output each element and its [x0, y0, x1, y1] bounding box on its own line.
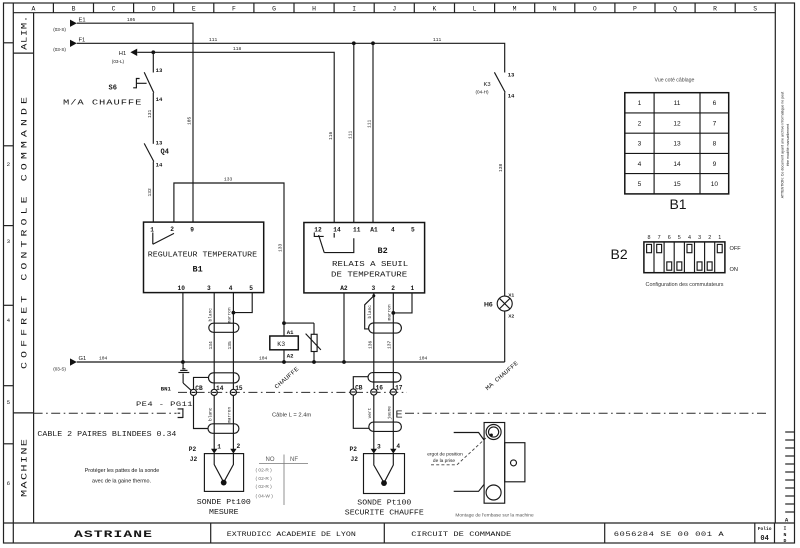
svg-text:14: 14 — [508, 93, 515, 100]
twisted pair symbol (cable to probe 1) — [208, 424, 239, 434]
svg-text:8: 8 — [713, 141, 717, 148]
svg-text:135: 135 — [227, 341, 233, 350]
svg-text:NO: NO — [266, 457, 275, 463]
svg-text:E1: E1 — [79, 17, 86, 23]
svg-text:3: 3 — [372, 285, 376, 292]
svg-text:marron: marron — [227, 406, 233, 423]
socket 15 — [230, 385, 243, 396]
svg-text:CHAUFFE: CHAUFFE — [273, 365, 301, 390]
svg-text:CB: CB — [195, 385, 203, 392]
regulator B1 — [144, 222, 264, 293]
svg-text:13: 13 — [508, 71, 515, 78]
svg-text:5: 5 — [411, 227, 415, 234]
svg-text:3: 3 — [698, 235, 701, 241]
svg-text:H: H — [312, 6, 316, 13]
svg-text:4: 4 — [391, 227, 395, 234]
svg-text:6056284 SE 00 001 A: 6056284 SE 00 001 A — [614, 531, 724, 539]
wire B1 pin 5 bridge — [232, 293, 253, 315]
svg-text:( 02-R ): ( 02-R ) — [256, 484, 273, 490]
svg-text:PE4 - PG11: PE4 - PG11 — [136, 402, 193, 409]
svg-text:( 02-R ): ( 02-R ) — [256, 468, 273, 474]
svg-text:A: A — [31, 6, 35, 13]
svg-text:7: 7 — [713, 120, 717, 127]
svg-text:134: 134 — [208, 341, 214, 350]
svg-text:ASTRIANE: ASTRIANE — [74, 528, 152, 540]
svg-text:J: J — [392, 6, 396, 13]
wire 118/116 (H1 to B2 pin 14) — [137, 46, 334, 223]
svg-text:B: B — [72, 6, 76, 13]
wire B1 pin 10 to 104 — [182, 293, 184, 362]
svg-text:13: 13 — [156, 67, 163, 74]
svg-text:jaune: jaune — [387, 406, 393, 420]
svg-text:blanc: blanc — [207, 407, 213, 421]
svg-text:132: 132 — [147, 188, 153, 197]
svg-text:11: 11 — [353, 227, 361, 234]
shield link CB to pair (B2 side) — [353, 377, 368, 389]
svg-text:4: 4 — [638, 161, 642, 168]
svg-text:Configuration des commutateurs: Configuration des commutateurs — [646, 282, 724, 288]
svg-text:M/A CHAUFFE: M/A CHAUFFE — [63, 99, 141, 107]
svg-text:1: 1 — [217, 444, 221, 451]
svg-text:R: R — [713, 6, 717, 13]
svg-text:1: 1 — [150, 227, 154, 234]
svg-text:3: 3 — [207, 285, 211, 292]
svg-text:04: 04 — [760, 535, 768, 543]
svg-text:6: 6 — [713, 100, 717, 107]
svg-text:C: C — [112, 6, 116, 13]
svg-text:blanc: blanc — [367, 305, 373, 319]
source arrow G1 — [53, 356, 86, 371]
svg-text:E: E — [192, 6, 196, 13]
svg-text:M: M — [513, 6, 517, 13]
svg-text:H6: H6 — [484, 302, 493, 309]
svg-text:116: 116 — [328, 131, 334, 140]
svg-text:8: 8 — [648, 235, 651, 241]
junction H1/S6 — [151, 50, 155, 54]
svg-text:1: 1 — [638, 100, 642, 107]
connector pin arrow 1 — [211, 444, 221, 454]
svg-text:4: 4 — [396, 443, 400, 450]
svg-text:SONDE Pt100: SONDE Pt100 — [357, 499, 411, 507]
svg-text:DE TEMPERATURE: DE TEMPERATURE — [331, 272, 408, 280]
svg-text:K: K — [432, 6, 436, 13]
svg-text:104: 104 — [259, 356, 268, 362]
shield link below CB (B1 side) — [194, 396, 209, 429]
svg-text:N: N — [553, 6, 557, 13]
svg-text:3: 3 — [7, 238, 11, 245]
svg-text:F1: F1 — [79, 37, 86, 43]
svg-text:REGULATEUR TEMPERATURE: REGULATEUR TEMPERATURE — [148, 251, 258, 259]
svg-text:ON: ON — [730, 267, 738, 273]
wire 134 blanc (B1 pin 3 to socket 14) — [207, 293, 214, 390]
breaker contact Q4 — [144, 140, 169, 169]
svg-text:111: 111 — [433, 37, 442, 43]
svg-text:14: 14 — [333, 227, 341, 234]
svg-text:(03-S): (03-S) — [53, 367, 66, 372]
svg-text:Protéger les pattes de la sond: Protéger les pattes de la sonde — [85, 468, 160, 474]
wire 133 (B1 pin 2 to K3 coil) — [174, 177, 284, 336]
svg-text:être modifié manuellement: être modifié manuellement — [786, 124, 790, 166]
svg-text:14: 14 — [156, 96, 163, 103]
connector pin arrow 4 — [390, 443, 400, 454]
svg-text:Q4: Q4 — [161, 149, 169, 157]
socket 16 — [371, 385, 384, 396]
svg-text:111: 111 — [209, 37, 218, 43]
revision index ticks — [785, 432, 794, 512]
svg-text:A2: A2 — [340, 285, 348, 292]
shield link below CB (B2 side) — [353, 395, 369, 428]
svg-text:A1: A1 — [370, 227, 378, 234]
wire 138 (K3 to lamp H6) — [498, 92, 505, 296]
svg-text:X2: X2 — [508, 314, 514, 320]
svg-text:OFF: OFF — [730, 246, 742, 252]
wire B2 pin A2 to 104 — [342, 293, 346, 364]
label P2 J2 (probe 1) — [189, 446, 198, 463]
shield link CB to pair (B1 side) — [194, 377, 209, 389]
svg-text:104: 104 — [99, 356, 108, 362]
wire 136 blanc (B2 pin 3 to socket 16) — [367, 293, 374, 389]
socket CB (B1 side) — [190, 385, 203, 396]
equipotential line E (dash-dot) — [396, 408, 769, 420]
wire 104 (G1 common return) — [77, 356, 505, 362]
svg-text:P: P — [633, 6, 637, 13]
svg-text:de la prise: de la prise — [433, 458, 455, 464]
svg-text:D: D — [783, 538, 786, 544]
probe Pt100 mesure box — [204, 454, 243, 492]
source arrow E1 — [53, 17, 85, 32]
svg-text:J2: J2 — [351, 456, 359, 463]
wire 105 (E1 to B1 pin 9) — [77, 17, 193, 222]
svg-text:4: 4 — [7, 317, 11, 324]
svg-text:O: O — [593, 6, 597, 13]
probe Pt100 securite box — [364, 454, 405, 494]
wire blanc (socket 14 to probe pin 1) — [207, 396, 214, 450]
svg-text:11: 11 — [674, 100, 681, 107]
svg-text:9: 9 — [190, 227, 194, 234]
wire lamp X2 down — [504, 311, 506, 362]
svg-text:2: 2 — [170, 226, 174, 233]
svg-text:CIRCUIT DE COMMANDE: CIRCUIT DE COMMANDE — [411, 531, 511, 539]
svg-text:5: 5 — [678, 235, 681, 241]
svg-text:I: I — [783, 526, 786, 532]
connector boundary BN1 (dash-dot) — [178, 391, 407, 393]
svg-text:J2: J2 — [190, 456, 198, 463]
twisted pair symbol (cable to probe 2) — [369, 422, 402, 431]
svg-text:A1: A1 — [287, 329, 294, 336]
svg-text:118: 118 — [233, 46, 242, 52]
svg-text:X1: X1 — [508, 292, 514, 298]
label SONDE Pt100 SECURITE CHAUFFE — [345, 499, 424, 517]
svg-text:K3: K3 — [484, 82, 491, 88]
wire vert (socket 16 to probe pin 3) — [367, 395, 374, 449]
NO/NF contact table — [256, 455, 309, 506]
svg-text:A2: A2 — [287, 353, 294, 360]
svg-text:K3: K3 — [277, 341, 285, 348]
svg-text:B1: B1 — [193, 265, 203, 275]
svg-text:16: 16 — [376, 385, 384, 392]
svg-text:Folio: Folio — [758, 526, 772, 532]
twisted pair symbol (below B1) — [209, 323, 239, 332]
svg-text:133: 133 — [224, 177, 233, 183]
svg-text:137: 137 — [387, 340, 393, 349]
label SONDE Pt100 MESURE — [197, 499, 251, 517]
note ergot de position — [427, 451, 463, 464]
svg-text:15: 15 — [235, 385, 243, 392]
svg-text:10: 10 — [178, 285, 186, 292]
svg-text:G1: G1 — [79, 356, 87, 362]
svg-text:G: G — [272, 6, 276, 13]
wire 135 marron (B1 pin 4 to socket 15) — [227, 293, 234, 390]
svg-text:ATTENTION: Ce document ayant u: ATTENTION: Ce document ayant une archive… — [780, 92, 784, 199]
wire 111 (F1 to K3 contact) — [77, 37, 505, 73]
cable gland symbol PG11 — [178, 408, 183, 418]
svg-text:12: 12 — [314, 227, 322, 234]
svg-text:P2: P2 — [350, 446, 358, 453]
svg-text:H1: H1 — [119, 51, 126, 57]
svg-text:133: 133 — [278, 243, 284, 252]
socket 17 — [390, 385, 403, 396]
svg-text:E: E — [396, 408, 403, 420]
svg-text:P2: P2 — [189, 446, 197, 453]
svg-text:104: 104 — [419, 356, 428, 362]
svg-text:(03-L): (03-L) — [112, 59, 125, 64]
machine boundary dash-dot (left) — [34, 412, 177, 414]
source arrow F1 — [53, 37, 85, 52]
socket 14 — [211, 385, 224, 396]
svg-text:SONDE Pt100: SONDE Pt100 — [197, 499, 251, 507]
svg-text:1: 1 — [411, 285, 415, 292]
svg-text:MA CHAUFFE: MA CHAUFFE — [484, 360, 520, 392]
svg-text:5: 5 — [638, 181, 642, 188]
wire 131 — [147, 93, 153, 144]
TITLE BLOCK — [4, 522, 795, 524]
wire marron (socket 15 to probe pin 2) — [227, 396, 234, 450]
wire 132 — [147, 162, 153, 223]
svg-text:5: 5 — [249, 285, 253, 292]
svg-text:6: 6 — [668, 235, 671, 241]
svg-text:136: 136 — [368, 340, 374, 349]
relay B2 — [304, 223, 425, 293]
label P2 J2 (probe 2) — [350, 446, 359, 463]
wire 111 (F1 to B2 pin 11) — [347, 41, 355, 222]
socket CB (B2 side) — [350, 385, 363, 396]
svg-text:5: 5 — [7, 399, 11, 406]
shield tap from B2 pin 3 — [365, 294, 376, 329]
svg-text:F: F — [232, 6, 236, 13]
svg-text:S6: S6 — [109, 84, 117, 92]
connector pin arrow 2 — [230, 443, 240, 454]
svg-text:S: S — [753, 6, 757, 13]
wire to S6 — [152, 52, 154, 72]
svg-text:NF: NF — [290, 457, 298, 463]
svg-text:Câble L = 2.4m: Câble L = 2.4m — [272, 412, 311, 418]
svg-text:10: 10 — [711, 181, 719, 188]
twisted pair symbol (above sockets 14/15) — [209, 373, 240, 383]
svg-text:111: 111 — [367, 119, 373, 128]
svg-text:CB: CB — [355, 385, 363, 392]
svg-text:3: 3 — [377, 444, 381, 451]
wire jaune (socket 17 to probe pin 4) — [387, 395, 394, 449]
switch S6 M/A CHAUFFE — [63, 67, 163, 107]
svg-text:14: 14 — [216, 385, 224, 392]
svg-text:105: 105 — [187, 116, 193, 125]
svg-text:RELAIS A SEUIL: RELAIS A SEUIL — [332, 261, 409, 269]
svg-text:2: 2 — [237, 443, 241, 450]
twisted pair symbol (below B2) — [369, 323, 402, 333]
svg-text:4: 4 — [688, 235, 691, 241]
svg-text:2: 2 — [638, 120, 642, 127]
sidebar band ALIM. — [13, 52, 33, 54]
lamp H6 — [484, 292, 514, 319]
svg-text:Vue coté câblage: Vue coté câblage — [655, 78, 695, 84]
svg-text:marron: marron — [227, 307, 233, 324]
svg-text:(03-S): (03-S) — [53, 27, 66, 32]
contact K3 (04-H) — [476, 71, 516, 99]
sidebar band COFFRET CONTROLE COMMANDE — [13, 412, 33, 414]
svg-text:14: 14 — [673, 161, 681, 168]
svg-text:12: 12 — [673, 120, 681, 127]
svg-text:COFFRET CONTROLE COMMANDE: COFFRET CONTROLE COMMANDE — [20, 97, 29, 369]
svg-text:EXTRUDICC ACADEMIE DE LYON: EXTRUDICC ACADEMIE DE LYON — [227, 531, 356, 539]
svg-text:1: 1 — [718, 235, 721, 241]
svg-text:L: L — [473, 6, 477, 13]
svg-text:14: 14 — [156, 162, 163, 169]
svg-text:13: 13 — [156, 140, 163, 147]
note proteger les pattes — [85, 468, 160, 485]
dashed leader to socket lug — [431, 437, 488, 465]
socket mounting plate — [454, 423, 525, 504]
svg-text:N: N — [783, 532, 786, 538]
earth symbol — [178, 362, 191, 390]
relay coil K3 — [270, 321, 314, 364]
svg-text:17: 17 — [395, 385, 403, 392]
svg-text:MACHINE: MACHINE — [21, 439, 30, 497]
svg-text:13: 13 — [673, 141, 681, 148]
svg-text:ALIM.: ALIM. — [20, 16, 29, 50]
svg-text:9: 9 — [713, 161, 717, 168]
svg-text:2: 2 — [391, 285, 395, 292]
svg-text:131: 131 — [147, 109, 153, 118]
svg-text:(04-H): (04-H) — [476, 90, 489, 95]
svg-text:vert: vert — [367, 407, 373, 418]
svg-text:blanc: blanc — [207, 308, 213, 322]
svg-text:B2: B2 — [378, 246, 388, 256]
svg-text:2: 2 — [7, 161, 11, 168]
connector pin arrow 3 — [371, 444, 381, 454]
destination arrow H1 — [112, 49, 137, 64]
svg-text:( 04-W ): ( 04-W ) — [256, 494, 274, 500]
svg-text:2: 2 — [708, 235, 711, 241]
svg-text:B2: B2 — [611, 246, 628, 262]
svg-text:15: 15 — [673, 181, 681, 188]
svg-text:SECURITE CHAUFFE: SECURITE CHAUFFE — [345, 509, 424, 517]
varistor across K3 coil — [306, 323, 321, 364]
wire 137 marron (B2 pin 2 to socket 17) — [387, 293, 394, 389]
wire 111 (F1 to B2 pin A1) — [367, 41, 375, 222]
svg-text:ergot de position: ergot de position — [427, 451, 463, 457]
svg-text:Montage de l'embase sur la mac: Montage de l'embase sur la machine — [455, 513, 534, 519]
svg-text:( 02-R ): ( 02-R ) — [256, 476, 273, 482]
svg-text:111: 111 — [347, 130, 353, 139]
wire B2 pin 1 bridge — [391, 293, 412, 315]
svg-text:avec de la gaine thermo.: avec de la gaine thermo. — [92, 479, 151, 485]
svg-text:CABLE 2 PAIRES BLINDEES 0.34: CABLE 2 PAIRES BLINDEES 0.34 — [37, 431, 176, 439]
svg-text:I: I — [352, 6, 356, 13]
junction 104/pin10 — [181, 360, 185, 364]
svg-text:6: 6 — [7, 480, 11, 487]
svg-text:MESURE: MESURE — [209, 509, 239, 517]
svg-text:138: 138 — [498, 163, 504, 172]
svg-text:3: 3 — [638, 141, 642, 148]
connector view table B1 — [625, 93, 729, 194]
dip switch block B2 — [644, 235, 741, 273]
svg-text:B1: B1 — [669, 196, 686, 212]
svg-text:4: 4 — [229, 285, 233, 292]
svg-text:Q: Q — [673, 6, 677, 13]
twisted pair symbol (above sockets 16/17) — [368, 373, 401, 382]
svg-text:105: 105 — [127, 17, 136, 23]
svg-text:D: D — [152, 6, 156, 13]
svg-text:7: 7 — [658, 235, 661, 241]
svg-text:BN1: BN1 — [161, 385, 172, 392]
svg-text:(03-S): (03-S) — [53, 47, 66, 52]
